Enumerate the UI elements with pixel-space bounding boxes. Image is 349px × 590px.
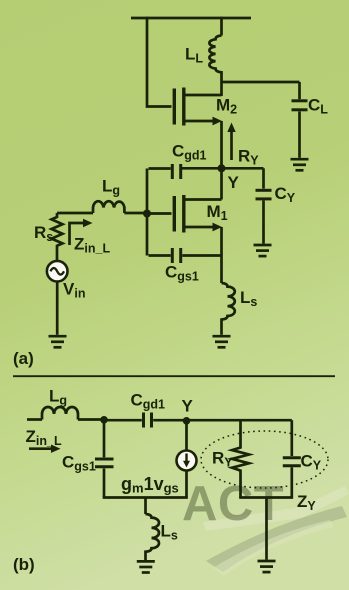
node Y dot (b) — [183, 417, 191, 425]
capacitor Cgd1 (b) — [144, 413, 292, 428]
wire VDD supply rail — [131, 17, 251, 20]
ground (Vin) — [49, 336, 67, 347]
separator line — [13, 375, 335, 377]
resistor RY (b) — [232, 420, 249, 497]
wire M2 source to node Y to M1 drain — [220, 121, 223, 200]
svg-text:Y: Y — [182, 397, 194, 416]
wire drain node to CL — [222, 81, 300, 84]
ground (CY) — [254, 245, 272, 256]
dotted ellipse around RY CY — [201, 431, 328, 488]
current source gm1vgs — [177, 421, 197, 498]
watermark swoosh — [203, 486, 349, 576]
svg-text:(a): (a) — [13, 349, 34, 368]
inductor Ls — [222, 283, 235, 335]
node Y junction dot — [218, 164, 226, 172]
wire M1 source down — [220, 227, 223, 283]
transistor M1 — [174, 195, 222, 233]
svg-text:(b): (b) — [13, 555, 35, 574]
ground (CL) — [291, 159, 309, 170]
svg-text:ACT: ACT — [182, 477, 284, 531]
wire Vin to ground — [56, 282, 59, 335]
capacitor CY (b) — [283, 420, 301, 497]
node gate junction dot — [143, 210, 151, 218]
inductor Ls (b) — [146, 498, 160, 561]
wire left vertical (Cgd1 to Cgs1) — [146, 169, 149, 256]
wire ZY ground tap — [265, 498, 268, 560]
inductor Lg — [57, 201, 147, 213]
wire bottom-left rail (b) — [103, 496, 188, 499]
inductor LL — [209, 17, 221, 96]
inductor Lg (b) — [27, 407, 104, 420]
capacitor Cgd1 — [149, 164, 181, 179]
ground (Ls b) — [137, 561, 155, 572]
capacitor Cgs1 — [149, 248, 222, 263]
source Vin — [47, 261, 68, 282]
ground (Ls) — [213, 336, 231, 347]
capacitor CY — [256, 168, 272, 243]
wire junction to Cgd1 (b) — [104, 419, 142, 422]
svg-text:Y: Y — [228, 173, 240, 192]
node input junction dot (b) — [100, 416, 108, 424]
arrow RY (looking-into impedance) — [227, 123, 235, 161]
wire bottom-right rail (b) — [239, 496, 293, 499]
wire node Y horizontal run — [182, 167, 264, 170]
ground (ZY) — [258, 561, 276, 572]
transistor M2 — [174, 88, 222, 126]
wire M1 gate lead — [147, 212, 172, 215]
wire M2 gate feed from rail — [147, 17, 172, 107]
capacitor CL — [292, 82, 308, 158]
arrow Zin (b) — [29, 445, 61, 453]
resistor Rs — [52, 213, 63, 260]
capacitor Cgs1 (b) — [95, 420, 114, 498]
arrow Zin (a) — [70, 219, 93, 245]
